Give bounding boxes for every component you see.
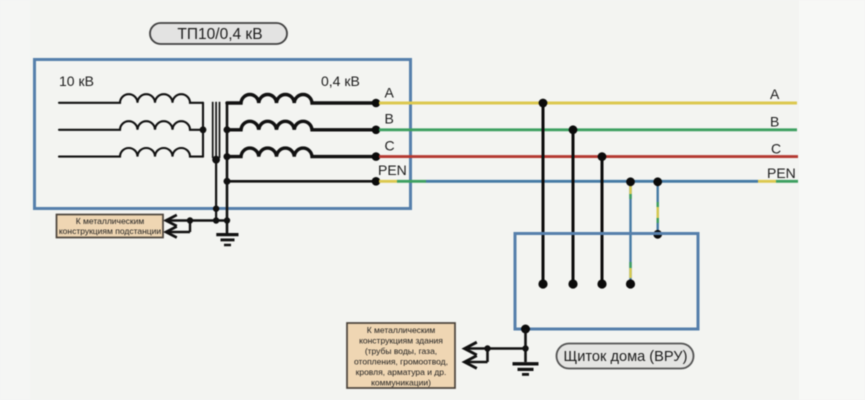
svg-text:PEN: PEN	[378, 162, 407, 178]
svg-text:A: A	[385, 85, 395, 101]
svg-text:коммуникации): коммуникации)	[371, 378, 431, 388]
svg-text:кровля, арматура и др.: кровля, арматура и др.	[356, 367, 447, 377]
svg-text:конструкциям подстанции: конструкциям подстанции	[59, 226, 162, 236]
svg-text:ТП10/0,4 кВ: ТП10/0,4 кВ	[177, 26, 262, 43]
svg-text:10 кВ: 10 кВ	[59, 73, 94, 89]
svg-text:К металлическим: К металлическим	[76, 216, 145, 226]
svg-text:конструкциям здания: конструкциям здания	[359, 336, 443, 346]
svg-text:PEN: PEN	[767, 165, 796, 181]
svg-text:B: B	[385, 111, 394, 127]
svg-text:Щиток дома (ВРУ): Щиток дома (ВРУ)	[564, 349, 688, 365]
svg-text:B: B	[770, 114, 779, 130]
svg-text:(трубы воды, газа,: (трубы воды, газа,	[365, 346, 437, 356]
svg-text:отопления, громоотвод,: отопления, громоотвод,	[354, 357, 448, 367]
svg-text:К металлическим: К металлическим	[367, 325, 436, 335]
svg-text:0,4 кВ: 0,4 кВ	[321, 73, 360, 89]
svg-text:C: C	[385, 138, 395, 154]
svg-text:A: A	[770, 86, 780, 102]
svg-text:C: C	[771, 141, 781, 157]
